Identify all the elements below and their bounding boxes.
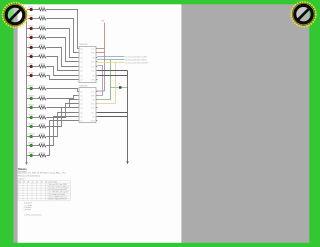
svg-text:F: F [46,182,47,184]
U1 pin stub left 1 [78,48,79,50]
wire R7 to U1 pin 7 [46,67,77,76]
resistor R13 [39,125,46,128]
wire D6 to R6 [33,56,39,58]
U2 pin stub left 4 [78,103,79,105]
svg-text:220Ω: 220Ω [40,35,45,37]
resistor R2 [39,17,46,20]
U2 pin stub right 16 [96,120,97,122]
U1 pin stub right 9 [96,48,97,50]
U1 pin stub left 2 [78,52,79,54]
wire bus to D13 cathode [27,126,30,128]
LED D4 [30,36,33,39]
svg-text:LED14: LED14 [28,134,35,136]
svg-text:Q6: Q6 [80,116,82,118]
resistor R6 [39,55,46,58]
svg-text:LED10: LED10 [28,96,35,98]
U1 pin stub right 10 [96,52,97,54]
LED D13 (green) [30,125,33,128]
svg-text:220Ω: 220Ω [40,16,45,18]
wire D16 to R16 [33,155,39,157]
watermark badge top-left [3,3,27,27]
svg-text:74HC595: 74HC595 [79,44,88,46]
svg-text:LED15: LED15 [28,143,35,145]
U1 pin stub right 13 [96,66,97,68]
svg-text:LED6: LED6 [28,54,34,56]
svg-text:LED9: LED9 [28,86,34,88]
svg-text:GND: GND [91,120,96,122]
wire bus to D15 cathode [27,145,30,147]
wire R12 to U2 pin 4 [46,104,77,118]
svg-text:Q1: Q1 [80,52,82,54]
LED D2 [30,17,33,20]
wire R16 to U2 pin 8 [46,121,77,156]
node junction J1 [119,86,122,89]
wire bus to D7 cathode [27,66,30,68]
wire R13 to U2 pin 5 [46,108,77,127]
wire U1 OE to ground bus [97,75,127,77]
U2 pin stub left 1 [78,91,79,93]
svg-text:LED11: LED11 [28,105,35,107]
U2 pin stub right 14 [96,112,97,114]
svg-text:C:\Projects\raketa.fzz: C:\Projects\raketa.fzz [24,213,42,216]
svg-text:LED1: LED1 [28,7,34,9]
svg-text:220Ω: 220Ω [40,96,45,98]
wire R1 to U1 pin 1 [46,10,77,49]
wire D10 to R10 [33,98,39,100]
svg-text:to microcontroller latchPin: to microcontroller latchPin [125,61,148,64]
svg-text:Q1: Q1 [80,95,82,97]
U2 pin stub left 8 [78,120,79,122]
svg-text:220Ω: 220Ω [40,86,45,88]
wire bus to D14 cathode [27,136,30,138]
wire D12 to R12 [33,117,39,119]
wire bus to D10 cathode [27,98,30,100]
svg-text:220Ω: 220Ω [40,134,45,136]
svg-text:to microcontroller clkPin: to microcontroller clkPin [125,58,146,61]
svg-text:Q5: Q5 [80,112,82,114]
U1 pin stub left 7 [78,75,79,77]
ground bus wire (LED cathode rail) [26,10,28,163]
wire SRCLK to U2 (green) [96,60,111,100]
U2 pin stub right 15 [96,116,97,118]
wire bus to D16 cathode [27,155,30,157]
U1 pin stub left 8 [78,79,79,81]
wire R6 to U1 pin 6 [46,57,77,71]
svg-text:Q3: Q3 [80,61,82,63]
resistor R1 [39,8,46,11]
svg-text:LED8: LED8 [28,73,34,75]
svg-text:220Ω: 220Ω [40,124,45,126]
wire 5V to U1 SRCLR [97,52,104,54]
wire D1 to R1 [33,9,39,11]
wire U1 QH to U2 SER (purple) [96,66,103,96]
svg-text:to microcontroller serPin: to microcontroller serPin [125,55,147,58]
wire R8 to U1 pin 8 [46,76,77,80]
svg-text:GND: GND [91,79,96,81]
svg-text:220Ω: 220Ω [40,105,45,107]
U1 pin stub left 4 [78,61,79,63]
resistor R9 [39,87,46,90]
wire bus to D6 cathode [27,56,30,58]
svg-text:Q7: Q7 [80,120,82,122]
U1 pin stub left 6 [78,70,79,72]
wire D2 to R2 [33,18,39,20]
svg-text:220Ω: 220Ω [40,45,45,47]
wire 5V vertical [104,23,106,91]
U2 pin stub left 5 [78,107,79,109]
svg-text:Q0: Q0 [80,48,82,50]
svg-text:Q0: Q0 [80,91,82,93]
svg-text:220Ω: 220Ω [40,64,45,66]
wire R10 to U2 pin 2 [46,96,77,99]
wire bus to D1 cathode [27,9,30,11]
svg-text:• junction: • junction [24,208,31,211]
wire D8 to R8 [33,75,39,77]
wire SRCLK to controller (green) [97,59,124,61]
svg-text:LED16: LED16 [28,153,35,155]
resistor R8 [39,74,46,77]
LED D8 [30,74,33,77]
svg-text:Raketa: Raketa [18,167,27,171]
wire bus to D12 cathode [27,117,30,119]
U2 pin stub left 6 [78,112,79,114]
svg-text:220Ω: 220Ω [40,7,45,9]
svg-text:SCL: SCL [91,70,95,72]
svg-text:Fritzing 0.9b 2013 (free): Fritzing 0.9b 2013 (free) [18,175,40,178]
resistor R10 [39,97,46,100]
wire U2 OE to ground bus [97,116,127,118]
wire R14 to U2 pin 6 [46,113,77,137]
LED D15 (green) [30,144,33,147]
svg-text:a1: a1 [118,83,120,85]
U2 pin stub left 3 [78,99,79,101]
U2 pin stub right 12 [96,103,97,105]
svg-text:Q2: Q2 [80,57,82,59]
wire RCLK to controller (yellow) [97,62,124,64]
BOM table grid [18,180,71,182]
LED D3 [30,27,33,30]
resistor R12 [39,116,46,119]
wire bus to D2 cathode [27,18,30,20]
wire bus to D5 cathode [27,47,30,49]
U2 pin stub right 9 [96,91,97,93]
wire D7 to R7 [33,66,39,68]
wire D9 to R9 [33,88,39,90]
U1 pin stub right 12 [96,61,97,63]
wire U2 GND to ground bus [97,112,127,114]
resistor R5 [39,46,46,49]
U2 pin stub right 10 [96,95,97,97]
svg-text:LED12: LED12 [28,115,35,117]
svg-text:SCL: SCL [91,112,95,114]
U1 pin stub left 5 [78,66,79,68]
resistor R15 [39,144,46,147]
resistor R7 [39,65,46,68]
ground symbol (left rail) [25,162,28,165]
op IC U1 74HC595 body [79,47,96,83]
svg-text:Legend: Legend [18,179,24,181]
resistor R11 [39,106,46,109]
svg-text:220Ω: 220Ω [40,54,45,56]
U1 pin stub right 15 [96,75,97,77]
svg-text:LED7: LED7 [28,64,34,66]
wire U1 GND to ground bus [97,70,127,72]
U1 pin stub right 14 [96,70,97,72]
svg-text:220Ω: 220Ω [40,115,45,117]
LED D9 (green) [30,87,33,90]
LED D5 [30,46,33,49]
wire bus to D4 cathode [27,37,30,39]
svg-text:Q4: Q4 [80,107,82,109]
wire R2 to U1 pin 2 [46,19,77,53]
LED D7 [30,65,33,68]
svg-text:Q2: Q2 [80,99,82,101]
U2 pin stub left 7 [78,116,79,118]
U1 pin stub right 16 [96,79,97,81]
wire D5 to R5 [33,47,39,49]
U2 pin stub right 13 [96,107,97,109]
wire 5V to U1 VCC [97,48,104,50]
wire R9 to U2 pin 1 [46,89,77,92]
watermark badge top-right [291,2,315,26]
wire D4 to R4 [33,37,39,39]
svg-text:power: regulated 5V DC: power: regulated 5V DC [49,198,68,201]
svg-text:Q7: Q7 [80,79,82,81]
svg-text:LED3: LED3 [28,26,34,28]
svg-text:220Ω: 220Ω [40,26,45,28]
svg-text:Q6: Q6 [80,75,82,77]
U1 pin stub left 3 [78,57,79,59]
wire R4 to U1 pin 4 [46,38,77,62]
LED D1 [30,8,33,11]
svg-text:Q4: Q4 [80,66,82,68]
wire RCLK to U2 (yellow) [96,63,116,104]
U2 pin stub right 11 [96,99,97,101]
resistor R3 [39,27,46,30]
wire bus to D3 cathode [27,28,30,30]
LED D11 (green) [30,106,33,109]
wire bus to D11 cathode [27,107,30,109]
U1 pin stub right 11 [96,57,97,59]
op IC U2 74HC595 body [79,88,96,123]
wire R3 to U1 pin 3 [46,29,77,58]
wire bus to D9 cathode [27,88,30,90]
resistor R16 [39,154,46,157]
svg-text:LED13: LED13 [28,124,35,126]
svg-text:74HC595: 74HC595 [79,85,88,87]
resistor R14 [39,135,46,138]
wire R5 to U1 pin 5 [46,48,77,67]
svg-text:November 05, 1992 10:39 PM (vl: November 05, 1992 10:39 PM (vl. Geory Ma… [18,171,66,174]
svg-text:LED2: LED2 [28,16,34,18]
svg-text:220Ω: 220Ω [40,73,45,75]
U2 pin stub left 2 [78,95,79,97]
wire D13 to R13 [33,126,39,128]
svg-text:LED5: LED5 [28,45,34,47]
wire D14 to R14 [33,136,39,138]
svg-text:Q5: Q5 [80,70,82,72]
svg-text:220Ω: 220Ω [40,143,45,145]
LED D6 [30,55,33,58]
wire 5V to U2 VCC [96,90,105,92]
svg-text:Qty: Qty [19,181,22,184]
LED D14 (green) [30,135,33,138]
wire green junction branch [111,87,128,89]
svg-text:LED4: LED4 [28,35,34,37]
ground bus vertical right [127,71,129,162]
LED D12 (green) [30,116,33,119]
wire D15 to R15 [33,145,39,147]
wire bus to D8 cathode [27,75,30,77]
LED D10 (green) [30,97,33,100]
ground symbol (right) [126,161,129,164]
wire R11 to U2 pin 3 [46,100,77,108]
wire D11 to R11 [33,107,39,109]
resistor R4 [39,36,46,39]
LED D16 (green) [30,154,33,157]
wire R15 to U2 pin 7 [46,117,77,146]
svg-text:220Ω: 220Ω [40,153,45,155]
wire U1 SER to controller (purple) [97,56,124,58]
svg-text:Q3: Q3 [80,103,82,105]
wire D3 to R3 [33,28,39,30]
